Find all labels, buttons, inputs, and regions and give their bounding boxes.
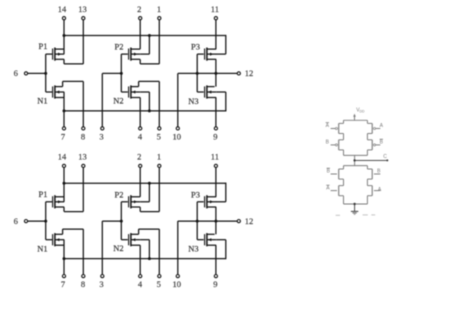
- pin 4: [139, 127, 142, 130]
- pin 10: [176, 127, 179, 130]
- wire VSS bulk bus: [64, 110, 226, 112]
- node ground junction: [353, 203, 355, 205]
- wire N3 drain to output: [215, 73, 217, 86]
- svg-text:1: 1: [157, 4, 161, 14]
- transistor T8 (NMOS A): [367, 185, 372, 187]
- wire pin10 to gates and output: [177, 73, 179, 126]
- wire P rail to output node: [354, 155, 356, 165]
- wire T3-T4: [366, 134, 368, 140]
- wire N1 source to pin 7: [63, 92, 65, 127]
- wire P2 drain to pin 1: [139, 59, 141, 64]
- transistor P2: [128, 49, 130, 60]
- pin 6: [24, 72, 27, 75]
- svg-text:14: 14: [58, 4, 67, 14]
- svg-text:5: 5: [157, 131, 161, 141]
- svg-text:12: 12: [245, 68, 254, 78]
- svg-text:P1: P1: [39, 41, 48, 51]
- transistor N2: [128, 86, 130, 97]
- caption dash mid: [363, 214, 368, 216]
- wire P network bottom rail: [344, 154, 368, 156]
- wire N network top rail: [344, 165, 368, 167]
- wire T1-T2: [343, 134, 345, 140]
- wire P3 drain to output: [215, 59, 217, 73]
- wire T6 to N bottom rail: [343, 196, 345, 204]
- svg-text:13: 13: [78, 4, 87, 14]
- power VDD arrow: [353, 114, 356, 117]
- wire T5-T6: [343, 179, 345, 186]
- wire gate rail pair3: [196, 54, 198, 92]
- pin 12: [237, 72, 240, 75]
- node VSS junction: [63, 109, 66, 112]
- node P2 bulk junction: [148, 34, 151, 37]
- node VDD junction: [63, 34, 66, 37]
- transistor T1 (PMOS A-bar): [343, 120, 345, 123]
- svg-text:7: 7: [61, 131, 65, 141]
- wire T7-T8: [366, 179, 368, 186]
- transistor T6 (NMOS A-bar): [339, 185, 344, 187]
- transistor N1: [52, 86, 54, 97]
- caption dash right: [371, 214, 375, 216]
- pin 1: [158, 17, 161, 20]
- node output drain junction: [214, 72, 217, 75]
- wire P2 bulk to VDD bus: [140, 53, 149, 55]
- wire P2 source to pin 2: [139, 20, 141, 49]
- wire N2 source to pin 4: [139, 98, 141, 127]
- svg-text:11: 11: [211, 4, 219, 14]
- transistor T7 (NMOS B): [366, 166, 368, 169]
- ground: [354, 204, 356, 211]
- svg-text:P3: P3: [191, 42, 200, 52]
- wire P1 source to pin 14: [63, 20, 65, 54]
- wire T8 to N bottom rail: [366, 196, 368, 204]
- svg-text:C: C: [383, 154, 387, 160]
- svg-text:N1: N1: [37, 96, 47, 106]
- wire N network bottom rail: [344, 203, 368, 205]
- wire output C: [355, 159, 388, 161]
- pin 8: [82, 127, 85, 130]
- pin 11: [214, 17, 217, 20]
- transistor T2 (PMOS B): [339, 139, 344, 141]
- svg-text:6: 6: [14, 68, 18, 78]
- wire P network top rail: [344, 119, 368, 121]
- pin 9: [214, 127, 217, 130]
- transistor T3 (PMOS A): [366, 120, 368, 123]
- wire gate rail pair2: [120, 54, 122, 92]
- wire N3 source to pin 9: [215, 98, 217, 127]
- wire P3 source to pin 11: [215, 20, 217, 49]
- svg-text:8: 8: [81, 131, 85, 141]
- transistor P3: [204, 49, 206, 60]
- transistor T4 (PMOS B-bar): [367, 139, 372, 141]
- wire P1 drain to pin 13: [63, 59, 65, 64]
- node output C junction: [353, 159, 355, 161]
- pin 3: [101, 127, 104, 130]
- pin 2: [139, 17, 142, 20]
- svg-text:10: 10: [173, 131, 182, 141]
- wire N3 bulk to VSS bus end: [216, 91, 226, 93]
- wire pin6 to gate rail: [28, 72, 46, 74]
- wire VDD bulk bus: [64, 35, 226, 37]
- svg-text:N2: N2: [113, 95, 123, 105]
- svg-text:3: 3: [99, 131, 103, 141]
- pin 7: [62, 127, 65, 130]
- svg-text:2: 2: [137, 4, 141, 14]
- transistor T5 (NMOS B-bar): [343, 166, 345, 169]
- wire P3 bulk to VDD bus end: [216, 53, 226, 55]
- caption dash left: [336, 214, 340, 216]
- wire N1 drain to pin 8: [62, 81, 64, 86]
- node gate2 junction: [120, 72, 123, 75]
- svg-text:VDD: VDD: [356, 108, 365, 114]
- svg-text:P2: P2: [115, 42, 124, 52]
- wire N2 bulk to VSS bus: [140, 91, 149, 93]
- wire T2 to P bottom rail: [343, 150, 345, 156]
- pin 13: [82, 17, 85, 20]
- transistor N3: [204, 86, 206, 97]
- wire pin3 to gate rail 2: [101, 73, 103, 126]
- svg-text:N3: N3: [188, 96, 198, 106]
- bottom block (duplicate CD4007 schematic): [14, 152, 254, 290]
- node gate3 junction: [196, 72, 199, 75]
- node gate1 junction: [44, 72, 47, 75]
- svg-text:9: 9: [213, 131, 217, 141]
- wire gate rail pair1: [45, 54, 47, 92]
- pin 14: [62, 17, 65, 20]
- pin 5: [158, 127, 161, 130]
- wire T4 to P bottom rail: [366, 150, 368, 156]
- node N2 bulk junction: [148, 109, 151, 112]
- transistor P1: [52, 49, 54, 60]
- wire N2 drain to pin 5: [138, 81, 140, 86]
